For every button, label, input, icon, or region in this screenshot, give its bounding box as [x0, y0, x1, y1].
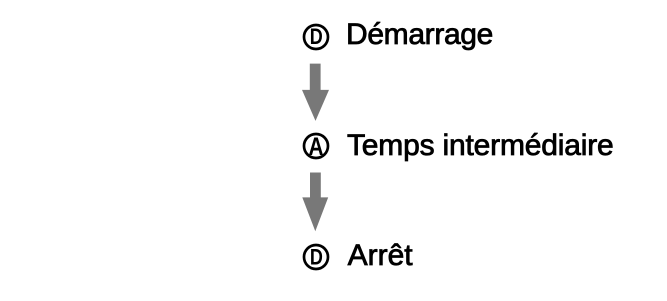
arrow 2 (down arrow from Temps intermédiaire to Arrêt): [301, 172, 331, 232]
svg-text:A: A: [309, 133, 324, 160]
svg-text:D: D: [310, 245, 323, 270]
arrow 1 (down arrow from Démarrage to Temps intermédiaire): [301, 63, 331, 122]
label Démarrage: [346, 18, 493, 52]
svg-text:D: D: [310, 24, 323, 49]
circled letter D (Démarrage marker): [302, 23, 330, 51]
label Temps intermédiaire: [347, 129, 614, 163]
circled letter D (Arrêt marker): [302, 243, 330, 271]
label Arrêt: [348, 239, 413, 273]
circled letter A (Temps intermédiaire marker): [302, 132, 330, 160]
